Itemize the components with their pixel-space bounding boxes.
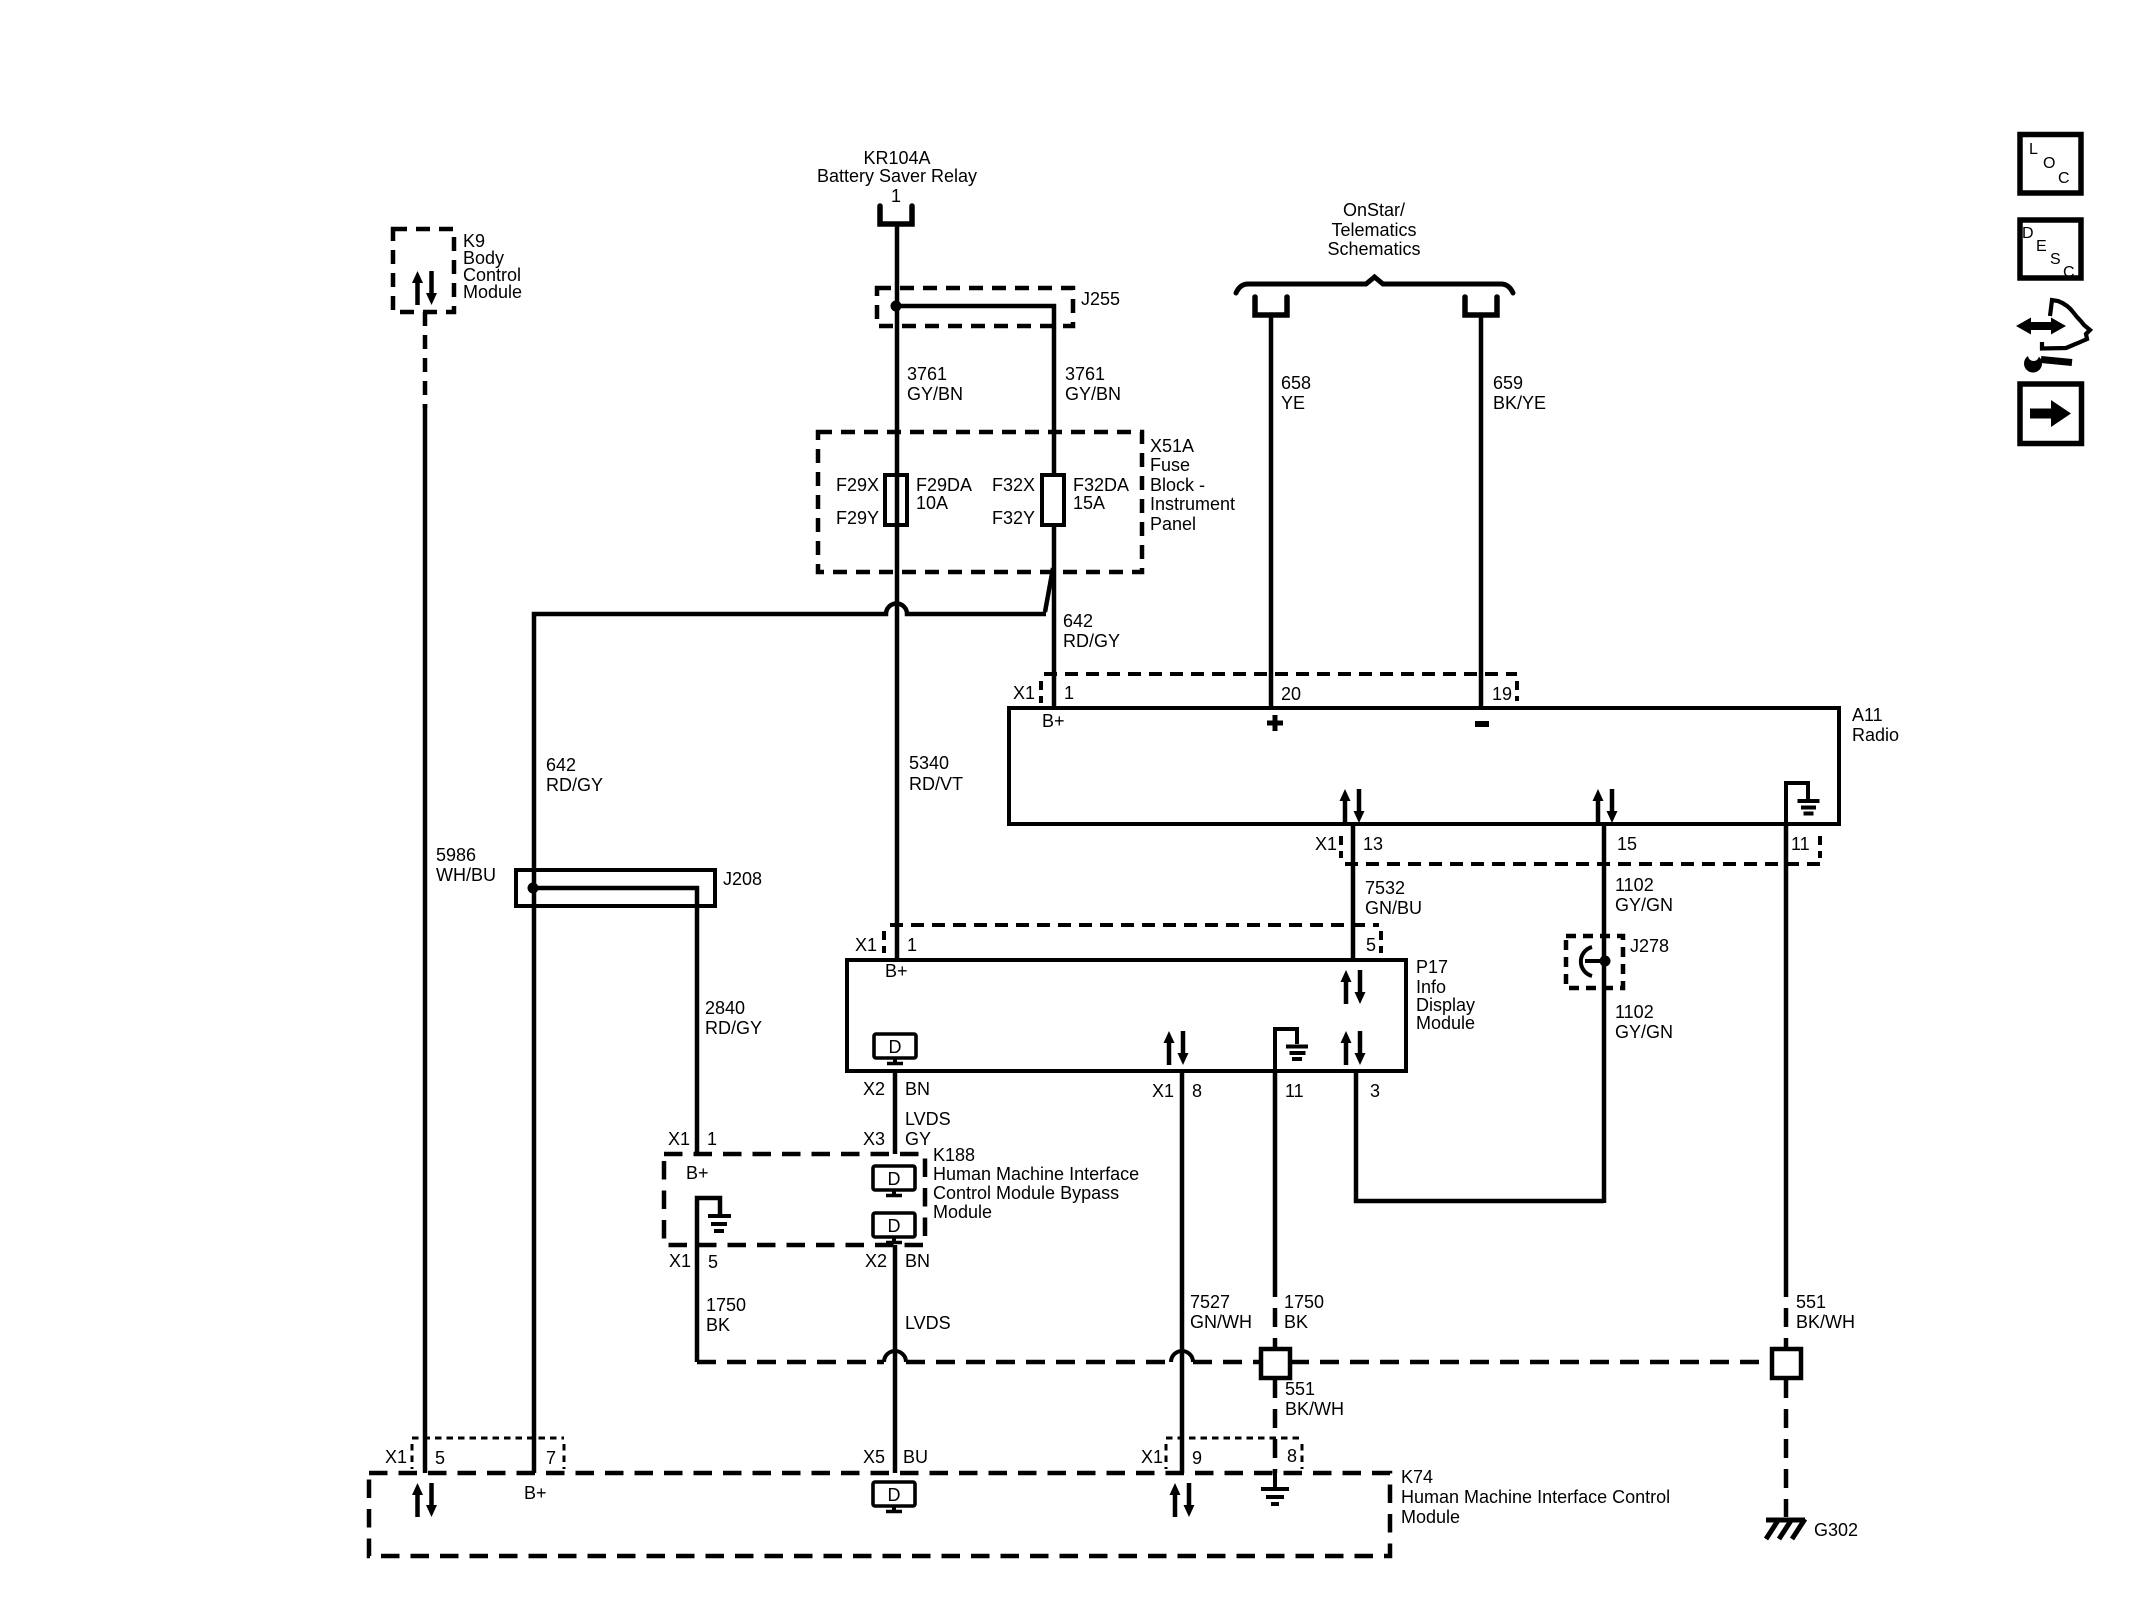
wire 658 YE to radio A11 pin 20 [1269, 315, 1274, 708]
wire from P17 pin 3 joining 1102 GY/GN [1356, 1071, 1604, 1201]
label wire 3761 GY/BN (right) [1065, 364, 1121, 404]
display icon inside K74 [873, 1482, 915, 1512]
ground symbol inside A11 (pin 11) [1786, 783, 1820, 824]
ground G302 (chassis ground) [1766, 1519, 1858, 1540]
bidirectional arrows inside K74 (pin 9) [1170, 1483, 1195, 1517]
wire LVDS GY from P17 X2 to K188 X3 [893, 1071, 898, 1154]
svg-text:Human Machine Interface: Human Machine Interface [933, 1164, 1139, 1184]
svg-text:Radio: Radio [1852, 725, 1899, 745]
svg-text:Battery Saver Relay: Battery Saver Relay [817, 166, 977, 186]
svg-text:Instrument: Instrument [1150, 494, 1235, 514]
wire 5986 WH/BU solid segment down to K74 [423, 404, 428, 1473]
svg-text:1: 1 [1064, 683, 1074, 703]
svg-text:F29DA: F29DA [916, 475, 972, 495]
wire 1102 GY/GN from A11 pin 15 through J278 [1602, 824, 1607, 1203]
svg-text:Fuse: Fuse [1150, 455, 1190, 475]
svg-text:B+: B+ [885, 961, 908, 981]
label wire 1102 GY/GN (upper) [1615, 875, 1673, 915]
icon LOC box [2020, 135, 2081, 194]
label wire 1750 BK (left) [706, 1295, 746, 1335]
svg-text:1: 1 [707, 1129, 717, 1149]
svg-text:RD/GY: RD/GY [705, 1018, 762, 1038]
icon forward arrow box [2020, 384, 2082, 444]
svg-text:X51A: X51A [1150, 436, 1194, 456]
svg-text:X1: X1 [1152, 1081, 1174, 1101]
clip symbol inside J278 [1581, 947, 1604, 976]
svg-text:Info: Info [1416, 977, 1446, 997]
wire 642 RD/GY horizontal branch with hop over 5340 wire [534, 604, 1046, 1474]
svg-text:9: 9 [1192, 1448, 1202, 1468]
svg-text:19: 19 [1492, 684, 1512, 704]
wire 551 BK/WH dashed horizontal run with hops [697, 1351, 1772, 1362]
svg-text:F32X: F32X [992, 475, 1035, 495]
wire from K188 ground hook to pin 5 and down to 551 run [697, 1198, 720, 1362]
svg-text:BK/YE: BK/YE [1493, 393, 1546, 413]
connector row X1 above P17 [855, 925, 1381, 955]
svg-text:8: 8 [1192, 1081, 1202, 1101]
terminal symbol OnStar wire 658 [1255, 297, 1287, 315]
svg-text:Module: Module [1416, 1013, 1475, 1033]
svg-text:7: 7 [546, 1448, 556, 1468]
relay KR104A Battery Saver Relay label and pin 1 [817, 148, 977, 206]
svg-text:X1: X1 [1315, 834, 1337, 854]
label wire 1102 GY/GN (lower) [1615, 1002, 1673, 1042]
fuse F32DA 15A [992, 475, 1129, 528]
svg-text:X5: X5 [863, 1447, 885, 1467]
svg-text:X1: X1 [385, 1447, 407, 1467]
svg-text:OnStar/: OnStar/ [1343, 200, 1405, 220]
svg-text:G302: G302 [1814, 1520, 1858, 1540]
svg-text:Module: Module [933, 1202, 992, 1222]
svg-text:WH/BU: WH/BU [436, 865, 496, 885]
svg-text:13: 13 [1363, 834, 1383, 854]
label wire 659 BK/YE [1493, 373, 1546, 413]
svg-text:11: 11 [1791, 834, 1810, 854]
svg-text:P17: P17 [1416, 957, 1448, 977]
bidirectional signal arrows inside K9 [412, 271, 437, 305]
svg-text:X2: X2 [863, 1079, 885, 1099]
ground symbol inside P17 (pin 11) [1275, 1029, 1308, 1071]
svg-text:5: 5 [708, 1252, 718, 1272]
svg-text:F32DA: F32DA [1073, 475, 1129, 495]
junction dot in J208 [528, 883, 539, 894]
bidirectional arrows inside P17 (pin 5) [1341, 970, 1366, 1004]
svg-text:Control Module Bypass: Control Module Bypass [933, 1183, 1119, 1203]
svg-text:Module: Module [463, 282, 522, 302]
svg-text:KR104A: KR104A [863, 148, 930, 168]
svg-text:1750: 1750 [1284, 1292, 1324, 1312]
wire 659 BK/YE to radio A11 pin 19 [1479, 315, 1484, 708]
bidirectional arrows inside P17 (pin 3) [1341, 1031, 1366, 1065]
svg-text:A11: A11 [1852, 705, 1883, 725]
svg-text:5: 5 [1366, 935, 1376, 955]
wire 7527 GN/WH from P17 pin 8 to K74 pin 9 [1180, 1071, 1185, 1473]
svg-text:B+: B+ [524, 1483, 547, 1503]
svg-text:5986: 5986 [436, 845, 476, 865]
pin labels below K188 [669, 1251, 930, 1272]
wire 551 BK/WH from A11 pin 11 (solid segment) [1784, 824, 1789, 1278]
module K74 Human Machine Interface Control Module (dashed box) [369, 1467, 1670, 1556]
svg-text:GY/BN: GY/BN [1065, 384, 1121, 404]
svg-text:1: 1 [891, 186, 901, 206]
bidirectional arrows inside A11 (pin 15) [1593, 789, 1618, 823]
svg-text:Human Machine Interface Contro: Human Machine Interface Control [1401, 1487, 1670, 1507]
module P17 Info Display Module (box) [847, 957, 1475, 1071]
brace under OnStar heading [1236, 277, 1513, 293]
svg-text:Panel: Panel [1150, 514, 1196, 534]
svg-text:15: 15 [1617, 834, 1637, 854]
svg-text:Schematics: Schematics [1327, 239, 1420, 259]
pin labels X3 GY at K188 top [863, 1129, 931, 1149]
minus symbol inside A11 [1475, 721, 1489, 727]
fuse F29DA 10A [836, 475, 972, 528]
svg-text:X3: X3 [863, 1129, 885, 1149]
svg-text:X1: X1 [855, 935, 877, 955]
svg-text:B+: B+ [686, 1163, 709, 1183]
bidirectional arrows inside P17 (pin 8) [1164, 1031, 1189, 1065]
wire 642 RD/GY from fuse F32 down to radio A11 pin 1 [1052, 525, 1057, 708]
svg-text:11: 11 [1285, 1081, 1304, 1101]
svg-text:Display: Display [1416, 995, 1475, 1015]
label wire 551 BK/WH (far right) [1796, 1292, 1855, 1332]
bidirectional arrows inside A11 (pin 13) [1340, 789, 1365, 823]
label wire 5340 RD/VT [909, 753, 963, 794]
svg-text:10A: 10A [916, 493, 948, 513]
junction dot at J278 [1600, 956, 1611, 967]
svg-text:3761: 3761 [1065, 364, 1105, 384]
svg-text:D: D [2022, 225, 2034, 242]
label wire 551 BK/WH (at left square) [1285, 1379, 1344, 1419]
svg-text:J278: J278 [1630, 936, 1669, 956]
svg-text:LVDS: LVDS [905, 1109, 951, 1129]
svg-text:YE: YE [1281, 393, 1305, 413]
label wire 2840 RD/GY [705, 998, 762, 1038]
connector row X1 above radio A11 [1013, 674, 1517, 704]
svg-text:1102: 1102 [1615, 875, 1654, 895]
wire 2840 RD/GY from J208 to K188 pin 1 [533, 888, 697, 1154]
svg-text:BN: BN [905, 1251, 930, 1271]
label wire 1750 BK (right) [1284, 1292, 1324, 1332]
svg-text:15A: 15A [1073, 493, 1105, 513]
pin labels X5 BU at K74 top middle [863, 1447, 928, 1467]
svg-text:L: L [2029, 141, 2038, 158]
label wire 3761 GY/BN (left) [907, 364, 963, 404]
svg-text:7532: 7532 [1365, 878, 1405, 898]
splice J278 (dashed box) [1566, 936, 1669, 988]
svg-text:GY/BN: GY/BN [907, 384, 963, 404]
display icon lower inside K188 [873, 1213, 915, 1243]
icon harness routing (double arrow, outline, wrench) [2016, 300, 2090, 373]
module K188 Human Machine Interface Control Module Bypass Module (dashed box) [664, 1145, 1139, 1245]
wire 5986 WH/BU from K9 to K74 pin 5 (dashed upper segment) [423, 312, 428, 408]
display icon inside P17 [874, 1034, 916, 1064]
ground symbol inside K74 (pin 8) [1261, 1473, 1289, 1504]
wire 551 BK/WH dashed segment above right square [1784, 1278, 1789, 1349]
terminal symbol at KR104A pin 1 [880, 206, 912, 224]
svg-text:Telematics: Telematics [1331, 220, 1416, 240]
svg-text:RD/GY: RD/GY [546, 775, 603, 795]
svg-text:X1: X1 [668, 1129, 690, 1149]
wire jog from fuse F32 to 642 branch [1045, 568, 1053, 612]
wire branch inside J255 to fuse F32 [896, 306, 1054, 475]
svg-text:F32Y: F32Y [992, 508, 1035, 528]
svg-text:658: 658 [1281, 373, 1311, 393]
svg-text:GY: GY [905, 1129, 931, 1149]
wire LVDS BN from K188 X2 to K74 X5 with hop [893, 1245, 898, 1473]
svg-text:F29X: F29X [836, 475, 879, 495]
wire 7532 GN/BU from A11 pin 13 to P17 pin 5 [1351, 824, 1356, 960]
svg-text:X1: X1 [669, 1251, 691, 1271]
connector bracket X1 5 7 at K74 top left [385, 1438, 564, 1469]
label wire 658 YE [1281, 373, 1311, 413]
svg-text:1750: 1750 [706, 1295, 746, 1315]
svg-text:7527: 7527 [1190, 1292, 1230, 1312]
icon DESC box [2020, 220, 2081, 281]
svg-text:Block -: Block - [1150, 475, 1205, 495]
splice J208 (solid box) [516, 869, 762, 906]
svg-text:BK/WH: BK/WH [1796, 1312, 1855, 1332]
svg-text:20: 20 [1281, 684, 1301, 704]
label wire 642 RD/GY (right) [1063, 611, 1120, 651]
svg-text:RD/GY: RD/GY [1063, 631, 1120, 651]
svg-text:BU: BU [903, 1447, 928, 1467]
wire 551 BK/WH dashed from square down to G302 [1784, 1379, 1789, 1517]
svg-text:2840: 2840 [705, 998, 745, 1018]
module A11 Radio (box) [1009, 705, 1899, 824]
plus symbol inside A11 [1267, 715, 1283, 731]
svg-text:LVDS: LVDS [905, 1313, 951, 1333]
svg-text:8: 8 [1287, 1446, 1297, 1466]
svg-text:3: 3 [1370, 1081, 1380, 1101]
terminal symbol OnStar wire 659 [1465, 297, 1497, 315]
svg-text:J208: J208 [723, 869, 762, 889]
svg-text:BK: BK [706, 1315, 730, 1335]
svg-text:3761: 3761 [907, 364, 947, 384]
svg-text:BK/WH: BK/WH [1285, 1399, 1344, 1419]
svg-text:S: S [2050, 251, 2061, 268]
ground symbol inside K188 [708, 1216, 731, 1231]
svg-text:551: 551 [1285, 1379, 1315, 1399]
wire from KR104A pin 1 down through J255 and fuse F29 to P17 (5340 RD/VT) [895, 224, 900, 960]
wire 1750 BK from P17 pin 11 (solid then dashed) [1273, 1071, 1278, 1349]
svg-text:B+: B+ [1042, 711, 1065, 731]
label wire 5986 WH/BU [436, 845, 496, 885]
svg-text:5: 5 [435, 1448, 445, 1468]
svg-text:C: C [2063, 264, 2075, 281]
svg-text:J255: J255 [1081, 289, 1120, 309]
bidirectional arrows inside K74 (pin 5) [412, 1483, 437, 1517]
pin labels below P17 [863, 1079, 1380, 1101]
svg-text:Module: Module [1401, 1507, 1460, 1527]
svg-text:1102: 1102 [1615, 1002, 1654, 1022]
svg-text:5340: 5340 [909, 753, 949, 773]
OnStar / Telematics Schematics heading [1327, 200, 1420, 259]
splice J255 (dashed box) [877, 288, 1120, 326]
svg-text:BK: BK [1284, 1312, 1308, 1332]
inline connector square on 551 run (right) [1772, 1349, 1801, 1378]
svg-text:659: 659 [1493, 373, 1523, 393]
svg-text:642: 642 [546, 755, 576, 775]
svg-text:X1: X1 [1141, 1447, 1163, 1467]
svg-text:K188: K188 [933, 1145, 975, 1165]
svg-text:642: 642 [1063, 611, 1093, 631]
svg-text:C: C [2058, 170, 2070, 187]
svg-text:X2: X2 [865, 1251, 887, 1271]
svg-text:GY/GN: GY/GN [1615, 1022, 1673, 1042]
display icon upper inside K188 [873, 1166, 915, 1196]
svg-text:1: 1 [907, 935, 917, 955]
label wire 7527 GN/WH [1190, 1292, 1252, 1332]
connector row X1 below radio A11 [1315, 834, 1820, 864]
svg-text:551: 551 [1796, 1292, 1826, 1312]
svg-text:BN: BN [905, 1079, 930, 1099]
svg-text:GN/WH: GN/WH [1190, 1312, 1252, 1332]
svg-text:E: E [2036, 238, 2047, 255]
label wire 7532 GN/BU [1365, 878, 1422, 918]
svg-text:RD/VT: RD/VT [909, 774, 963, 794]
inline connector square on 551 run (left) [1261, 1349, 1290, 1378]
svg-text:F29Y: F29Y [836, 508, 879, 528]
fuse block X51A (dashed box) [818, 432, 1235, 572]
svg-text:GY/GN: GY/GN [1615, 895, 1673, 915]
svg-text:GN/BU: GN/BU [1365, 898, 1422, 918]
module K9 Body Control Module (dashed box) [393, 229, 522, 312]
label wire 642 RD/GY (left vertical) [546, 755, 603, 795]
svg-text:O: O [2043, 155, 2055, 172]
junction dot in J255 [891, 301, 902, 312]
svg-text:K74: K74 [1401, 1467, 1433, 1487]
connector pins X1 1 at K188 top [668, 1129, 717, 1149]
svg-text:X1: X1 [1013, 683, 1035, 703]
connector bracket X1 9 8 at K74 top right [1141, 1438, 1302, 1469]
wire 1750 BK dashed from square down to K74 pin 8 [1273, 1379, 1278, 1473]
